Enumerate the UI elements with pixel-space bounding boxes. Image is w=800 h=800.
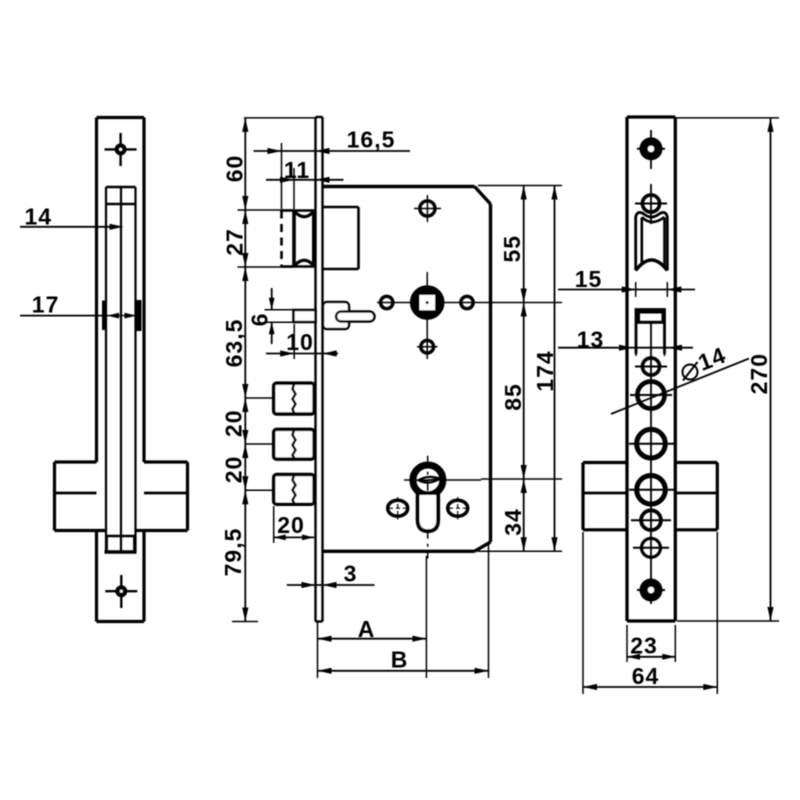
dim 13	[558, 347, 693, 349]
dim B	[318, 670, 489, 672]
right view hole small 1	[631, 519, 671, 521]
right chain extension follower	[491, 302, 562, 304]
middle view follower crosshair	[426, 272, 428, 359]
left chain extension top	[244, 117, 317, 119]
svg-text:17: 17	[32, 292, 60, 318]
svg-text:270: 270	[746, 353, 772, 394]
left view case end box	[105, 536, 108, 552]
middle view euro cylinder neck	[420, 495, 437, 529]
right view latch bolt seen front	[640, 218, 643, 264]
middle view lock case outline	[323, 185, 475, 188]
svg-text:174: 174	[532, 350, 558, 391]
right chain extension top	[478, 185, 562, 187]
left chain extension latch bottom	[238, 266, 295, 268]
svg-text:16,5: 16,5	[347, 127, 396, 153]
svg-text:20: 20	[277, 512, 305, 538]
dim 55-85-34 line	[523, 186, 525, 552]
svg-text:23: 23	[630, 633, 658, 659]
left chain extension bottom	[232, 621, 258, 623]
middle view latch bolt	[282, 209, 316, 212]
svg-text:85: 85	[500, 383, 526, 411]
middle view deadbolt block 2	[274, 429, 314, 459]
svg-text:15: 15	[575, 266, 603, 292]
dim 55-85-34 arrows	[521, 186, 527, 200]
svg-text:13: 13	[577, 327, 605, 353]
right view deadbolt front	[639, 312, 664, 322]
right chain extension cylinder	[481, 478, 562, 480]
right view hole small 2	[633, 547, 669, 549]
dim 270	[770, 118, 772, 621]
dim 13 ticks	[635, 341, 637, 356]
svg-text:20: 20	[221, 456, 247, 484]
dim 20 line	[274, 536, 314, 538]
left chain extension bolt3	[245, 489, 273, 491]
dim 64 ticks	[582, 532, 584, 694]
right view bottom screw	[637, 589, 665, 591]
left view faceplate (edge-on) outline	[97, 116, 145, 119]
dim A	[318, 638, 427, 640]
left chain extension latch top	[238, 209, 295, 211]
dim 3	[287, 584, 375, 586]
dim 23 ticks	[626, 625, 628, 662]
middle view cylinder keyway	[419, 477, 440, 483]
right view latch cutout	[636, 212, 668, 270]
middle view latch housing box	[323, 206, 359, 209]
dim 23	[627, 656, 675, 658]
right view centerline	[650, 130, 652, 169]
middle view follower side hole left	[381, 296, 393, 308]
dim A-B left extension	[317, 622, 319, 679]
left chain extension bolt1	[245, 397, 273, 399]
middle view faceplate strip	[316, 117, 323, 622]
right view faceplate outline	[627, 115, 675, 118]
middle view euro cylinder crosshair	[427, 456, 429, 559]
middle view euro cylinder ring	[413, 465, 443, 495]
middle view hole below follower	[417, 346, 438, 348]
dim 10	[266, 353, 338, 355]
dia symbol	[683, 365, 698, 380]
dim 6 extensions	[265, 309, 294, 311]
left view inner case lines	[105, 187, 107, 552]
middle view deadbolt block 2 break line	[293, 430, 296, 458]
left view thick bar left (17 ref)	[102, 301, 107, 331]
middle view stem inner block	[323, 302, 349, 329]
left chain arrows	[242, 118, 248, 132]
left view latch housing edge lines	[106, 186, 136, 188]
right view screw top	[637, 148, 665, 150]
middle view latch bolt retracted-tip dashed line	[280, 211, 283, 267]
right view deadbolt cutout	[636, 310, 665, 355]
middle view deadbolt block 1	[274, 383, 314, 414]
dim 11	[266, 179, 344, 181]
dim A-B cylinder extension	[425, 556, 427, 678]
svg-text:3: 3	[344, 561, 358, 587]
svg-text:11: 11	[284, 157, 310, 183]
svg-text:63,5: 63,5	[221, 319, 247, 368]
extension line latch tip	[281, 143, 283, 209]
right view hole d14	[630, 394, 672, 396]
dim 6 arrows	[271, 288, 273, 310]
left view thick bar right (17 ref)	[137, 300, 142, 331]
left chain dimension line	[244, 118, 246, 622]
svg-text:64: 64	[632, 663, 660, 689]
svg-text:34: 34	[500, 508, 526, 536]
dia 14 leader line	[611, 359, 749, 415]
dim 15 ticks	[635, 282, 637, 297]
left view wide box (cylinder escutcheon)	[53, 462, 56, 531]
right view wide box	[581, 463, 584, 530]
dim 16,5	[254, 150, 411, 152]
left chain extension bolt2	[245, 443, 273, 445]
middle view deadbolt block 3	[274, 475, 314, 505]
right view big hole 1	[629, 443, 674, 445]
middle view follower side hole right	[461, 296, 473, 308]
dim 64	[583, 686, 717, 688]
svg-text:B: B	[391, 647, 409, 673]
dim 15	[558, 289, 695, 291]
svg-text:60: 60	[222, 155, 248, 183]
middle view deadbolt block 3 break line	[293, 475, 296, 503]
svg-text:79,5: 79,5	[220, 528, 246, 577]
svg-text:A: A	[358, 616, 376, 642]
left view top screw	[119, 133, 121, 166]
svg-text:20: 20	[221, 410, 247, 438]
dim 174 line	[554, 186, 556, 552]
right view screw 2	[635, 203, 667, 205]
extension line latch face	[293, 168, 295, 209]
right view big hole 2	[629, 489, 674, 491]
middle view cylinder screw oval left	[388, 500, 408, 516]
middle view deadbolt stem (through faceplate)	[294, 310, 316, 322]
middle view spindle follower	[419, 294, 436, 311]
middle view cylinder screw oval right	[448, 500, 468, 516]
svg-text:14: 14	[25, 204, 53, 230]
svg-text:6: 6	[247, 313, 273, 327]
left view bottom screw	[120, 575, 122, 608]
dim 20 extension	[273, 506, 275, 543]
dim 270 extensions	[677, 117, 779, 119]
middle view deadbolt block 1 break line	[293, 384, 296, 413]
middle view stem pill bar	[336, 312, 375, 322]
middle view top screw hole	[426, 195, 428, 222]
right view screw 3	[635, 366, 667, 368]
svg-text:10: 10	[286, 329, 314, 355]
dim 10 extension	[293, 324, 295, 359]
right chain extension bottom	[478, 550, 562, 552]
dim A-B case-edge extension	[488, 545, 490, 678]
svg-text:55: 55	[499, 235, 525, 263]
svg-text:27: 27	[222, 228, 248, 256]
